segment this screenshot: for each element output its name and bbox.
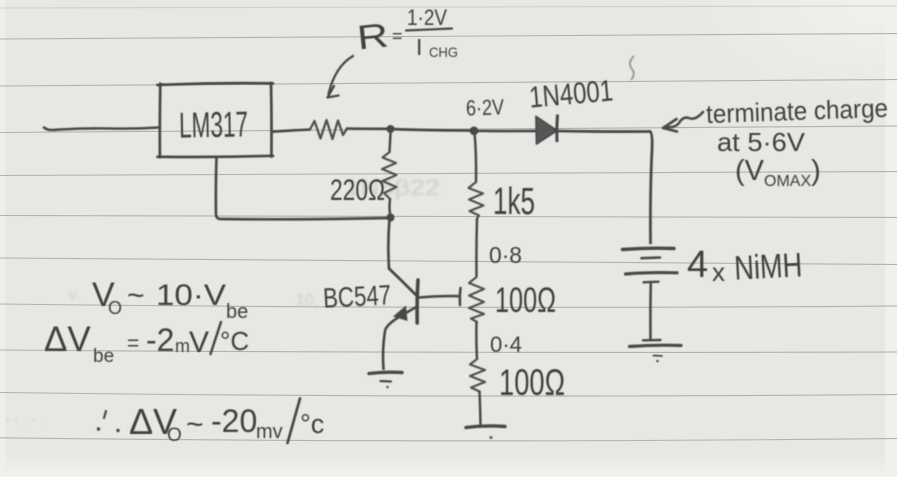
wire 1k5 to 100R upper <box>475 219 478 277</box>
svg-text:LM317: LM317 <box>179 103 249 145</box>
svg-text:°C: °C <box>220 326 249 356</box>
svg-text:x: x <box>712 257 725 287</box>
svg-text:100Ω: 100Ω <box>495 281 556 320</box>
wire R to node <box>347 127 389 130</box>
svg-text:6·2V: 6·2V <box>466 94 505 120</box>
svg-text:BC547: BC547 <box>322 279 392 314</box>
svg-text:O: O <box>167 425 182 446</box>
ghost pencil marks (faint) <box>6 175 440 432</box>
resistor 220R (vertical zigzag) <box>382 152 397 199</box>
svg-text:at 5·6V: at 5·6V <box>717 127 806 157</box>
arrow annotation to charge wire <box>667 112 703 127</box>
diode D1 1N4001 <box>536 117 557 145</box>
svg-text:m: m <box>175 336 190 356</box>
svg-text:=: = <box>127 332 139 355</box>
svg-text:°c: °c <box>300 409 324 439</box>
ground emitter <box>369 372 402 373</box>
wire base <box>419 296 459 297</box>
svg-text:~: ~ <box>186 408 204 441</box>
svg-text:terminate charge: terminate charge <box>706 93 889 129</box>
svg-text:-2: -2 <box>146 322 174 358</box>
svg-text:10·V: 10·V <box>156 279 226 312</box>
transistor Q1 BC547 <box>383 269 418 370</box>
wire input (left lead into regulator) <box>44 128 159 131</box>
wire collector up to 220R node <box>388 219 389 269</box>
battery BT1 4x NiMH <box>623 248 682 356</box>
node junction at R / 220R <box>387 125 395 133</box>
resistor R (current-set, horizontal zigzag) <box>310 120 347 139</box>
svg-text:ΔV: ΔV <box>44 320 91 359</box>
ground resistor chain <box>466 426 505 428</box>
wire ADJ (regulator bottom to node) <box>216 157 387 219</box>
svg-text:R: R <box>355 16 390 57</box>
wire node to 6.2V node <box>390 129 473 131</box>
svg-text:mv: mv <box>256 421 283 443</box>
svg-text:10,: 10, <box>296 292 318 309</box>
svg-text:=: = <box>392 26 403 46</box>
svg-text:1·2V: 1·2V <box>407 5 447 30</box>
node ADJ junction <box>387 214 395 222</box>
resistor 100R lower (vertical zigzag) <box>470 359 485 392</box>
arrow annotation to resistor R <box>329 56 354 94</box>
wire node down to 220R <box>390 133 391 152</box>
wire 100R upper to lower <box>475 322 478 359</box>
svg-text:100Ω: 100Ω <box>499 362 565 403</box>
wire battery drop (vertical) <box>650 132 652 244</box>
svg-text:CHG: CHG <box>429 44 458 60</box>
svg-text:-20: -20 <box>211 403 257 439</box>
wire 6.2V node down to 1k5 <box>475 132 477 182</box>
svg-text:1k5: 1k5 <box>493 181 535 223</box>
resistor 100R upper (vertical zigzag) <box>469 277 484 322</box>
svg-text:4: 4 <box>687 244 708 286</box>
svg-text:NiMH: NiMH <box>733 246 803 288</box>
svg-text:0·8: 0·8 <box>489 242 522 268</box>
svg-text:0·4: 0·4 <box>490 332 522 357</box>
svg-text:be: be <box>226 301 248 323</box>
formula therefore dVo ~ -20mV/C <box>104 411 106 418</box>
svg-text:1N5β22: 1N5β22 <box>345 175 440 200</box>
wire base tick <box>459 288 462 305</box>
node 6.2V junction <box>470 127 479 136</box>
svg-text:V: V <box>189 326 209 359</box>
wire regulator output <box>272 130 311 132</box>
wire 220R to ADJ node <box>388 199 391 214</box>
svg-text:O: O <box>108 298 122 318</box>
svg-text:I: I <box>416 34 422 60</box>
ground battery (dot mark) <box>656 360 659 363</box>
wire node to diode <box>474 129 535 132</box>
wire 100R lower to ground <box>480 392 481 425</box>
svg-text:be: be <box>93 346 114 367</box>
resistor 1k5 (vertical zigzag) <box>469 182 484 219</box>
svg-text:~: ~ <box>127 279 145 312</box>
regulator U1 LM317 (box) <box>158 83 274 157</box>
svg-text:V.: V. <box>68 287 80 303</box>
annotation squiggle mark <box>630 56 634 80</box>
wire diode to battery corner <box>558 130 650 133</box>
